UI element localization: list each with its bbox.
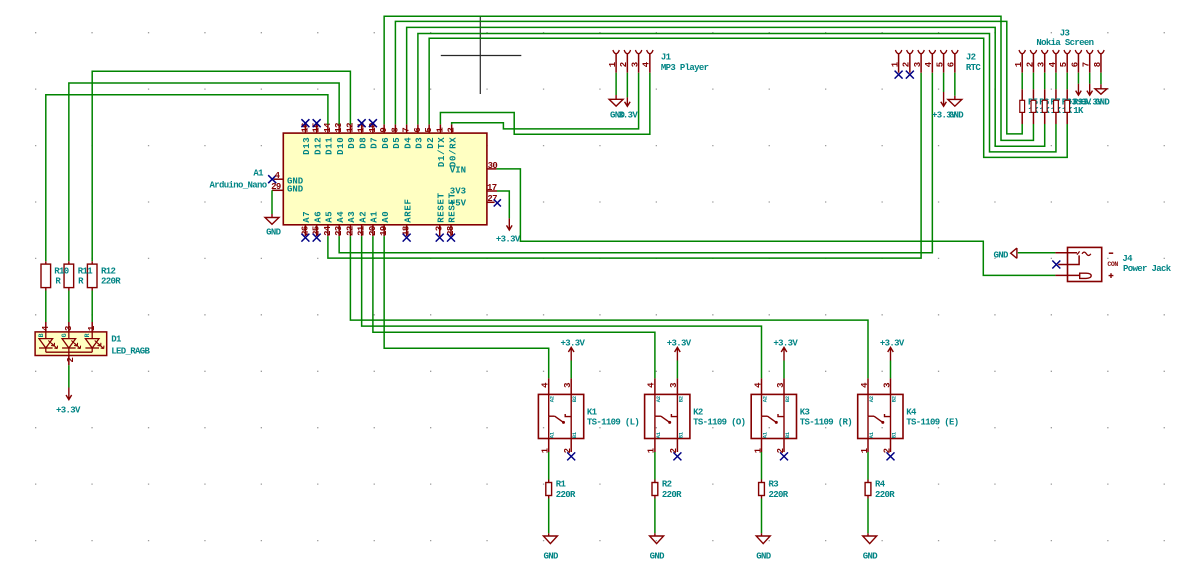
svg-text:3: 3 (669, 383, 679, 388)
svg-text:+3.3V: +3.3V (667, 338, 692, 348)
svg-text:GND: GND (543, 552, 559, 562)
svg-text:16: 16 (300, 123, 310, 133)
svg-text:9: 9 (379, 128, 389, 133)
svg-text:A0: A0 (381, 211, 391, 223)
svg-text:Arduino_Nano: Arduino_Nano (209, 180, 266, 190)
svg-text:6: 6 (947, 62, 957, 67)
svg-text:D9: D9 (347, 137, 357, 149)
svg-text:GND: GND (650, 552, 666, 562)
svg-text:J1: J1 (661, 53, 672, 63)
svg-text:7: 7 (402, 128, 412, 133)
svg-text:+5V: +5V (450, 199, 467, 209)
svg-text:B1: B1 (677, 431, 684, 438)
svg-text:D5: D5 (392, 137, 402, 149)
svg-text:3: 3 (776, 383, 786, 388)
svg-text:D1: D1 (111, 334, 122, 344)
svg-text:A2: A2 (762, 396, 769, 402)
svg-text:D2: D2 (426, 137, 436, 149)
svg-text:20: 20 (368, 226, 378, 236)
svg-text:+3.3V: +3.3V (880, 338, 905, 348)
svg-text:A1: A1 (762, 431, 769, 438)
svg-text:MP3 Player: MP3 Player (661, 63, 709, 73)
svg-text:R1: R1 (556, 480, 567, 490)
svg-text:3: 3 (913, 62, 923, 67)
svg-text:J4: J4 (1122, 254, 1133, 264)
svg-text:A2: A2 (358, 211, 368, 223)
svg-text:R12: R12 (101, 267, 116, 277)
svg-text:24: 24 (323, 225, 333, 236)
svg-text:Power Jack: Power Jack (1123, 264, 1172, 274)
svg-text:2: 2 (1025, 62, 1035, 67)
svg-text:10: 10 (368, 123, 378, 133)
svg-text:D3: D3 (415, 137, 425, 149)
svg-text:J3: J3 (1060, 28, 1070, 38)
svg-text:GND: GND (994, 250, 1010, 260)
svg-text:D11: D11 (325, 137, 335, 155)
svg-text:30: 30 (488, 161, 498, 171)
svg-text:D6: D6 (381, 137, 391, 149)
svg-text:B2: B2 (571, 396, 578, 402)
svg-text:3: 3 (882, 383, 892, 388)
svg-text:8: 8 (390, 128, 400, 133)
svg-text:23: 23 (334, 226, 344, 236)
svg-text:3: 3 (563, 383, 573, 388)
svg-text:D1/TX: D1/TX (437, 137, 447, 168)
svg-text:A4: A4 (336, 211, 346, 223)
svg-text:220R: 220R (101, 277, 121, 287)
svg-text:+3.3V: +3.3V (56, 405, 81, 415)
svg-text:2: 2 (447, 128, 457, 133)
svg-text:Nokia Screen: Nokia Screen (1036, 38, 1093, 48)
svg-text:TS-1109 (L): TS-1109 (L) (587, 417, 639, 427)
svg-text:6: 6 (413, 128, 423, 133)
svg-text:5: 5 (424, 128, 434, 133)
svg-text:G: G (61, 333, 68, 337)
svg-text:A1: A1 (253, 168, 264, 178)
svg-text:K1: K1 (587, 407, 598, 417)
svg-text:B1: B1 (784, 431, 791, 438)
svg-text:2: 2 (902, 62, 912, 67)
svg-text:GND: GND (949, 111, 965, 121)
svg-text:R11: R11 (78, 267, 94, 277)
svg-text:R2: R2 (662, 480, 672, 490)
svg-text:CON: CON (1107, 261, 1118, 268)
svg-text:TS-1109 (R): TS-1109 (R) (800, 417, 852, 427)
svg-text:8: 8 (1093, 62, 1103, 67)
svg-text:2: 2 (619, 62, 629, 67)
svg-text:GND: GND (1095, 97, 1111, 107)
svg-text:TS-1109 (O): TS-1109 (O) (693, 417, 745, 427)
svg-text:D12: D12 (313, 137, 323, 155)
svg-text:27: 27 (487, 194, 497, 204)
svg-text:B2: B2 (891, 396, 898, 402)
svg-text:D8: D8 (358, 137, 368, 149)
svg-text:220R: 220R (556, 490, 576, 500)
svg-text:GND: GND (756, 552, 772, 562)
svg-text:A2: A2 (549, 396, 556, 402)
svg-text:RESET: RESET (436, 192, 446, 223)
svg-text:5: 5 (1059, 62, 1069, 67)
svg-text:RTC: RTC (966, 63, 982, 73)
svg-text:TS-1109 (E): TS-1109 (E) (906, 417, 958, 427)
svg-text:D10: D10 (336, 137, 346, 155)
svg-text:220R: 220R (875, 490, 895, 500)
svg-text:B1: B1 (891, 431, 898, 438)
svg-text:B1: B1 (571, 431, 578, 438)
svg-text:VIN: VIN (450, 166, 466, 176)
svg-text:220R: 220R (769, 490, 789, 500)
svg-text:A2: A2 (655, 396, 662, 402)
svg-text:R3: R3 (769, 480, 779, 490)
svg-text:19: 19 (379, 226, 389, 236)
svg-text:B2: B2 (784, 396, 791, 402)
svg-text:+3.3V: +3.3V (496, 235, 521, 245)
svg-text:6: 6 (1070, 62, 1080, 67)
svg-text:R10: R10 (54, 267, 69, 277)
svg-text:R4: R4 (875, 480, 886, 490)
svg-text:21: 21 (357, 225, 367, 236)
svg-text:7: 7 (1082, 62, 1092, 67)
svg-text:A5: A5 (325, 211, 335, 223)
svg-text:A7: A7 (302, 211, 312, 223)
svg-text:+3.3V: +3.3V (773, 338, 798, 348)
svg-text:A1: A1 (655, 431, 662, 438)
svg-text:3: 3 (435, 226, 445, 231)
svg-text:220R: 220R (662, 490, 682, 500)
svg-text:GND: GND (266, 228, 282, 238)
svg-text:B2: B2 (677, 396, 684, 402)
svg-text:22: 22 (345, 226, 355, 236)
svg-text:D13: D13 (302, 137, 312, 155)
svg-text:A2: A2 (868, 396, 875, 402)
svg-text:15: 15 (312, 123, 322, 133)
svg-text:AREF: AREF (403, 198, 413, 222)
svg-text:3: 3 (630, 62, 640, 67)
svg-text:D0/RX: D0/RX (448, 137, 458, 168)
svg-text:A1: A1 (370, 211, 380, 223)
svg-text:GND: GND (287, 185, 304, 195)
svg-text:LED_RAGB: LED_RAGB (111, 347, 150, 357)
svg-text:K2: K2 (693, 407, 703, 417)
svg-text:3.3V: 3.3V (618, 111, 638, 121)
svg-text:A6: A6 (313, 211, 323, 223)
svg-text:A1: A1 (549, 431, 556, 438)
svg-text:17: 17 (487, 183, 497, 193)
svg-text:3: 3 (1037, 62, 1047, 67)
svg-text:3V3: 3V3 (450, 186, 466, 196)
svg-text:B: B (38, 333, 45, 337)
svg-text:R: R (84, 333, 91, 337)
svg-text:3: 3 (64, 326, 74, 331)
svg-text:GND: GND (863, 552, 879, 562)
svg-text:D4: D4 (403, 137, 413, 149)
svg-text:K4: K4 (906, 407, 917, 417)
svg-text:J2: J2 (966, 53, 976, 63)
svg-text:A3: A3 (347, 211, 357, 223)
svg-text:D7: D7 (370, 137, 380, 149)
svg-text:A1: A1 (868, 431, 875, 438)
svg-text:K3: K3 (800, 407, 810, 417)
svg-text:2: 2 (66, 358, 76, 363)
svg-text:+3.3V: +3.3V (561, 338, 586, 348)
svg-text:5: 5 (935, 62, 945, 67)
